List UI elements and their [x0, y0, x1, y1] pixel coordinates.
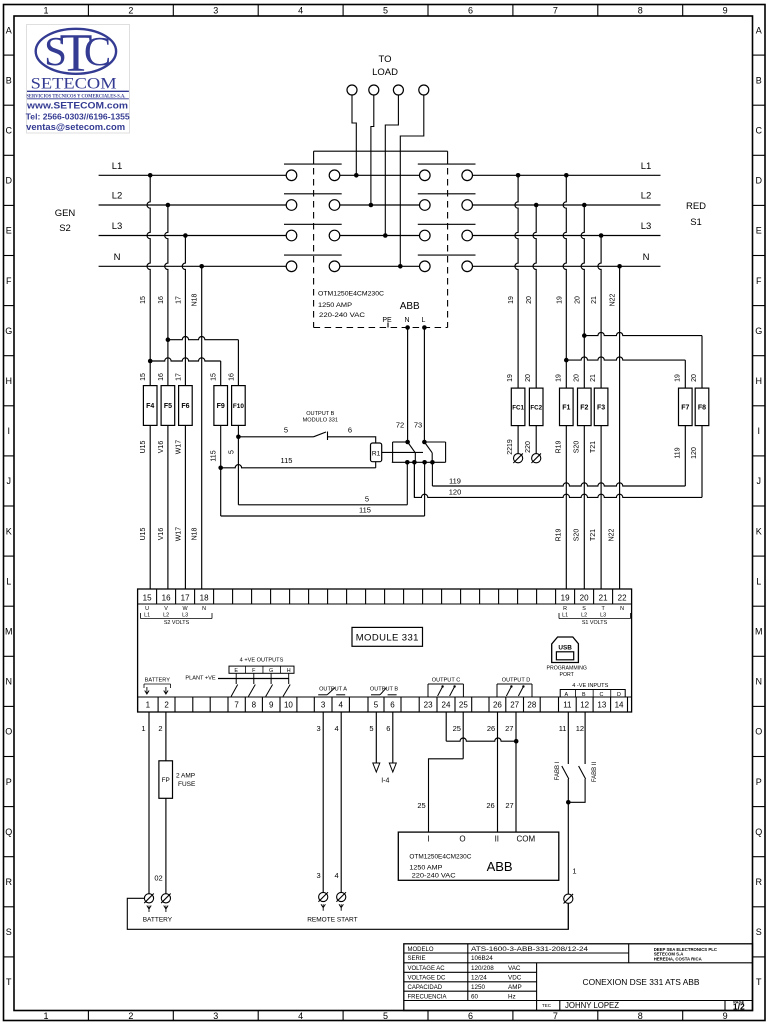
- svg-text:4: 4: [335, 871, 339, 880]
- svg-text:19: 19: [556, 296, 563, 304]
- svg-text:5: 5: [228, 450, 235, 454]
- svg-text:27: 27: [505, 724, 513, 733]
- svg-text:D: D: [5, 176, 12, 186]
- switch pole L3: [286, 230, 297, 241]
- svg-text:L3: L3: [112, 221, 123, 232]
- svg-text:N22: N22: [609, 528, 616, 541]
- fuse FC1: [511, 388, 525, 426]
- svg-text:Tel: 2566-0303//6196-1355: Tel: 2566-0303//6196-1355: [26, 111, 130, 121]
- svg-text:1: 1: [43, 1011, 48, 1021]
- svg-text:S1: S1: [690, 217, 702, 228]
- svg-text:5: 5: [374, 701, 379, 710]
- svg-text:F2: F2: [580, 404, 588, 411]
- svg-text:FC2: FC2: [530, 404, 542, 411]
- node tap 20 right: [534, 203, 539, 208]
- svg-text:ABB: ABB: [400, 301, 420, 312]
- svg-text:AMP: AMP: [508, 984, 522, 991]
- svg-text:BATTERY: BATTERY: [143, 917, 173, 924]
- svg-text:N18: N18: [192, 293, 199, 306]
- svg-text:E: E: [756, 226, 762, 236]
- svg-text:L2: L2: [641, 191, 652, 202]
- svg-text:15: 15: [143, 594, 152, 603]
- svg-text:U15: U15: [140, 440, 147, 453]
- fuse F7: [679, 388, 693, 426]
- +ve output switches: [235, 673, 237, 678]
- svg-text:W: W: [183, 606, 189, 612]
- svg-text:F: F: [6, 276, 12, 286]
- svg-text:20: 20: [574, 296, 581, 304]
- node tap N18: [199, 264, 204, 269]
- svg-text:O: O: [755, 727, 762, 737]
- svg-text:VOLTAGE AC: VOLTAGE AC: [408, 966, 446, 972]
- svg-text:FABB I: FABB I: [555, 761, 561, 780]
- svg-text:1250 AMP: 1250 AMP: [318, 302, 352, 309]
- svg-text:FP: FP: [162, 777, 170, 784]
- svg-text:L1: L1: [562, 613, 568, 619]
- fuse F2: [578, 388, 592, 426]
- svg-text:ATS-1600-3-ABB-331-208/12-24: ATS-1600-3-ABB-331-208/12-24: [471, 946, 589, 953]
- svg-text:21: 21: [590, 374, 597, 382]
- svg-text:I: I: [7, 426, 10, 436]
- svg-text:220: 220: [525, 441, 532, 453]
- svg-text:19: 19: [561, 594, 570, 603]
- svg-text:N: N: [643, 252, 650, 263]
- svg-text:120/208: 120/208: [471, 965, 494, 972]
- svg-text:19: 19: [507, 374, 514, 382]
- svg-text:BATTERY: BATTERY: [145, 678, 171, 684]
- svg-text:PLANT +VE: PLANT +VE: [185, 676, 215, 682]
- svg-text:5: 5: [365, 494, 369, 503]
- svg-text:RED: RED: [686, 201, 706, 212]
- svg-text:F6: F6: [181, 403, 189, 410]
- svg-text:F3: F3: [597, 404, 605, 411]
- svg-text:17: 17: [175, 296, 182, 304]
- svg-text:4 -VE INPUTS: 4 -VE INPUTS: [572, 683, 608, 689]
- svg-text:4: 4: [298, 1011, 303, 1021]
- svg-text:F9: F9: [217, 403, 225, 410]
- svg-text:I-4: I-4: [381, 778, 389, 785]
- svg-text:02: 02: [154, 874, 162, 883]
- svg-text:25: 25: [453, 724, 461, 733]
- svg-text:73: 73: [414, 421, 422, 430]
- svg-text:JOHNY LOPEZ: JOHNY LOPEZ: [565, 1001, 619, 1010]
- svg-text:26: 26: [486, 801, 494, 810]
- svg-text:5: 5: [383, 6, 388, 16]
- svg-text:P: P: [756, 777, 762, 787]
- svg-text:14: 14: [615, 701, 624, 710]
- svg-text:S2 VOLTS: S2 VOLTS: [164, 620, 190, 626]
- svg-text:6: 6: [386, 724, 390, 733]
- svg-text:O: O: [459, 834, 465, 843]
- fuse F10: [232, 386, 246, 426]
- svg-text:18: 18: [200, 594, 209, 603]
- svg-text:W17: W17: [175, 527, 182, 542]
- svg-text:115: 115: [359, 505, 371, 514]
- svg-text:I: I: [427, 834, 429, 843]
- svg-text:16: 16: [158, 296, 165, 304]
- svg-text:O: O: [5, 727, 12, 737]
- svg-text:7: 7: [553, 6, 558, 16]
- battery terminals: [144, 894, 153, 903]
- svg-text:CONEXION DSE 331 ATS ABB: CONEXION DSE 331 ATS ABB: [583, 977, 700, 987]
- svg-text:CAPACIDAD: CAPACIDAD: [408, 985, 443, 991]
- svg-text:T21: T21: [590, 529, 597, 541]
- svg-text:FUSE: FUSE: [178, 781, 196, 788]
- node tap 15: [148, 173, 153, 178]
- svg-text:V: V: [164, 606, 168, 612]
- relay R1: [371, 443, 382, 462]
- svg-text:25: 25: [459, 701, 468, 710]
- svg-text:ventas@setecom.com: ventas@setecom.com: [26, 122, 125, 133]
- wire L2 red side: [473, 204, 661, 206]
- svg-text:27: 27: [510, 701, 519, 710]
- switch pole L1: [286, 170, 297, 181]
- svg-text:23: 23: [424, 701, 433, 710]
- svg-text:4: 4: [298, 6, 303, 16]
- svg-text:8: 8: [638, 6, 643, 16]
- USB programming port: [552, 637, 579, 663]
- svg-text:22: 22: [618, 594, 627, 603]
- svg-text:FC1: FC1: [512, 404, 524, 411]
- svg-text:N18: N18: [192, 527, 199, 540]
- svg-text:17: 17: [175, 373, 182, 381]
- svg-text:Hz: Hz: [508, 993, 516, 1000]
- R1 output wire: [382, 451, 423, 453]
- svg-text:TEC: TEC: [542, 1003, 552, 1008]
- svg-text:L3: L3: [600, 613, 606, 619]
- fuse F6: [179, 386, 193, 426]
- svg-text:4 +VE OUTPUTS: 4 +VE OUTPUTS: [240, 658, 284, 664]
- svg-text:OTM1250E4CM230C: OTM1250E4CM230C: [409, 855, 472, 861]
- svg-text:L: L: [756, 576, 761, 586]
- svg-text:PROGRAMMING: PROGRAMMING: [547, 666, 587, 672]
- svg-text:15: 15: [140, 296, 147, 304]
- svg-text:J: J: [756, 476, 761, 486]
- svg-text:27: 27: [505, 801, 513, 810]
- svg-text:119: 119: [674, 447, 681, 458]
- wire L3 gen side: [99, 235, 287, 237]
- svg-text:TO: TO: [378, 54, 391, 65]
- svg-text:11: 11: [559, 724, 567, 733]
- svg-text:R: R: [755, 877, 762, 887]
- svg-text:PE: PE: [382, 317, 392, 324]
- svg-text:MODULE 331: MODULE 331: [356, 633, 419, 644]
- svg-text:2: 2: [164, 701, 169, 710]
- svg-text:REMOTE START: REMOTE START: [307, 917, 357, 924]
- svg-text:S1 VOLTS: S1 VOLTS: [582, 620, 608, 626]
- ATS switch OTM1250E4CM230C: [314, 150, 448, 152]
- svg-text:A: A: [756, 25, 762, 35]
- svg-text:6: 6: [390, 701, 395, 710]
- svg-text:MODELO: MODELO: [408, 947, 434, 953]
- svg-text:F10: F10: [233, 403, 244, 410]
- svg-text:W17: W17: [175, 440, 182, 455]
- svg-text:B: B: [6, 75, 12, 85]
- svg-text:L: L: [6, 576, 11, 586]
- svg-text:M: M: [755, 626, 763, 636]
- svg-text:10: 10: [284, 701, 293, 710]
- module top terminals: [156, 589, 158, 604]
- 119 bus: [684, 426, 686, 486]
- svg-text:L2: L2: [112, 191, 123, 202]
- wire N red side: [473, 265, 661, 267]
- svg-text:V16: V16: [158, 441, 165, 454]
- svg-text:9: 9: [723, 1011, 728, 1021]
- fuse F8: [695, 388, 709, 426]
- FC output terminals: [514, 454, 523, 463]
- svg-text:LOAD: LOAD: [372, 67, 398, 78]
- svg-text:19: 19: [674, 374, 681, 382]
- wire L1 red side: [473, 174, 661, 176]
- svg-text:G: G: [755, 326, 762, 336]
- node tap 19 right: [564, 173, 569, 178]
- svg-text:T: T: [6, 977, 12, 987]
- svg-text:FRECUENCIA: FRECUENCIA: [408, 994, 447, 1000]
- svg-text:P: P: [6, 777, 12, 787]
- svg-text:220-240 VAC: 220-240 VAC: [319, 312, 366, 319]
- svg-text:9: 9: [269, 701, 274, 710]
- svg-text:H: H: [287, 668, 291, 674]
- MODULE 331 label: [352, 627, 423, 646]
- svg-text:12: 12: [576, 724, 584, 733]
- svg-text:2: 2: [158, 724, 162, 733]
- svg-text:L3: L3: [182, 613, 188, 619]
- svg-text:25: 25: [417, 801, 425, 810]
- svg-text:3: 3: [317, 724, 321, 733]
- svg-text:PORT: PORT: [560, 672, 575, 678]
- fuse F1: [560, 388, 574, 426]
- svg-text:17: 17: [181, 594, 190, 603]
- svg-text:T: T: [60, 23, 93, 83]
- svg-text:60: 60: [471, 993, 479, 1000]
- svg-text:R19: R19: [555, 440, 562, 453]
- svg-text:7: 7: [553, 1011, 558, 1021]
- switch pole N: [286, 261, 297, 272]
- node tap N22 right: [617, 264, 622, 269]
- svg-text:VAC: VAC: [508, 965, 521, 972]
- svg-text:11: 11: [563, 701, 572, 710]
- fuse F9: [214, 386, 228, 426]
- battery + feed bus: [127, 898, 568, 929]
- svg-text:S: S: [756, 927, 762, 937]
- wire L2 gen side: [99, 204, 287, 206]
- svg-text:S20: S20: [573, 529, 580, 542]
- svg-text:VDC: VDC: [508, 975, 522, 982]
- svg-text:106B24: 106B24: [471, 955, 493, 962]
- svg-text:20: 20: [526, 296, 533, 304]
- svg-text:S: S: [582, 606, 586, 612]
- svg-text:15: 15: [140, 373, 147, 381]
- wire N gen side: [99, 265, 287, 267]
- svg-text:F8: F8: [698, 404, 706, 411]
- svg-text:3: 3: [213, 1011, 218, 1021]
- svg-text:SERIE: SERIE: [408, 956, 426, 962]
- svg-text:G: G: [5, 326, 12, 336]
- svg-text:GEN: GEN: [55, 208, 76, 219]
- svg-text:5: 5: [284, 426, 288, 435]
- svg-text:6: 6: [468, 6, 473, 16]
- svg-text:F7: F7: [681, 404, 689, 411]
- svg-text:E: E: [234, 668, 238, 674]
- svg-text:L1: L1: [112, 161, 123, 172]
- svg-text:1250: 1250: [471, 984, 486, 991]
- svg-text:2: 2: [128, 1011, 133, 1021]
- svg-text:2 AMP: 2 AMP: [176, 773, 195, 780]
- node tap 19 right: [516, 173, 521, 178]
- svg-text:K: K: [6, 526, 12, 536]
- svg-text:1/2: 1/2: [733, 1002, 745, 1012]
- svg-text:T21: T21: [590, 441, 597, 453]
- svg-text:16: 16: [158, 373, 165, 381]
- svg-text:72: 72: [396, 421, 404, 430]
- svg-text:220-240 VAC: 220-240 VAC: [412, 874, 457, 880]
- svg-text:A: A: [6, 25, 12, 35]
- svg-text:OTM1250E4CM230C: OTM1250E4CM230C: [318, 291, 385, 298]
- svg-text:4: 4: [335, 724, 339, 733]
- svg-text:U15: U15: [140, 527, 147, 540]
- svg-text:2: 2: [128, 6, 133, 16]
- module bottom terminals: [137, 697, 139, 712]
- svg-text:8: 8: [638, 1011, 643, 1021]
- svg-text:N: N: [5, 677, 12, 687]
- svg-text:www.SETECOM.com: www.SETECOM.com: [26, 100, 128, 111]
- svg-text:FABB II: FABB II: [592, 761, 598, 782]
- svg-text:1: 1: [43, 6, 48, 16]
- svg-text:VOLTAGE DC: VOLTAGE DC: [408, 976, 446, 982]
- svg-text:5: 5: [383, 1011, 388, 1021]
- svg-text:USB: USB: [558, 645, 572, 652]
- svg-text:21: 21: [591, 296, 598, 304]
- svg-text:16: 16: [228, 373, 235, 381]
- svg-text:OUTPUT B: OUTPUT B: [306, 411, 334, 417]
- svg-text:20: 20: [525, 374, 532, 382]
- svg-text:R: R: [5, 877, 12, 887]
- svg-text:A: A: [564, 692, 568, 698]
- svg-text:N: N: [404, 317, 409, 324]
- svg-text:N22: N22: [610, 293, 617, 306]
- svg-text:II: II: [495, 834, 499, 843]
- fuse F4: [143, 386, 157, 426]
- svg-text:S: S: [6, 927, 12, 937]
- svg-text:1: 1: [141, 724, 145, 733]
- load wires: [352, 95, 356, 175]
- N L terminal dots: [405, 325, 410, 330]
- svg-text:3: 3: [213, 6, 218, 16]
- svg-text:V16: V16: [158, 528, 165, 541]
- svg-text:L: L: [422, 317, 426, 324]
- contact brackets: [393, 441, 408, 443]
- 5 bus: [237, 437, 239, 505]
- svg-text:D: D: [755, 176, 762, 186]
- node tap 21 right: [599, 233, 604, 238]
- svg-text:5: 5: [369, 724, 373, 733]
- svg-text:MODULO 331: MODULO 331: [303, 418, 338, 424]
- node tap 20 right: [582, 203, 587, 208]
- svg-text:B: B: [756, 75, 762, 85]
- 115 bus: [220, 468, 222, 516]
- svg-text:N: N: [114, 252, 121, 263]
- svg-text:R: R: [563, 606, 567, 612]
- svg-text:20: 20: [691, 374, 698, 382]
- svg-text:HEREDIA, COSTA RICA: HEREDIA, COSTA RICA: [654, 956, 702, 961]
- svg-text:L1: L1: [144, 613, 150, 619]
- svg-text:24: 24: [442, 701, 451, 710]
- svg-text:12/24: 12/24: [471, 975, 487, 982]
- svg-text:8: 8: [252, 701, 257, 710]
- svg-text:1: 1: [572, 867, 576, 876]
- svg-text:S2: S2: [59, 223, 71, 234]
- wire L3 red side: [473, 235, 661, 237]
- svg-text:SETECOM: SETECOM: [31, 76, 117, 93]
- svg-text:1: 1: [146, 701, 151, 710]
- node tap 17: [183, 233, 188, 238]
- svg-text:K: K: [756, 526, 762, 536]
- switch pole L2: [286, 200, 297, 211]
- fuse FC2: [529, 388, 543, 426]
- svg-text:20: 20: [580, 594, 589, 603]
- svg-text:L2: L2: [163, 613, 169, 619]
- svg-text:3: 3: [317, 871, 321, 880]
- svg-text:6: 6: [468, 1011, 473, 1021]
- fuse FP: [159, 761, 173, 799]
- svg-text:120: 120: [449, 488, 462, 497]
- svg-text:F5: F5: [164, 403, 172, 410]
- fuse F5: [161, 386, 175, 426]
- svg-text:6: 6: [348, 426, 352, 435]
- svg-text:L3: L3: [641, 221, 652, 232]
- svg-text:26: 26: [493, 701, 502, 710]
- module 331 outline: [138, 589, 632, 712]
- svg-text:R19: R19: [555, 528, 562, 541]
- svg-text:28: 28: [527, 701, 536, 710]
- svg-text:20: 20: [573, 374, 580, 382]
- svg-text:120: 120: [691, 447, 698, 459]
- svg-text:119: 119: [449, 476, 461, 485]
- 120 bus path: [414, 462, 702, 497]
- svg-text:Q: Q: [5, 827, 12, 837]
- svg-text:B: B: [582, 692, 586, 698]
- svg-text:J: J: [6, 476, 11, 486]
- svg-text:12: 12: [580, 701, 589, 710]
- svg-text:2219: 2219: [507, 439, 514, 455]
- svg-text:OUTPUT D: OUTPUT D: [502, 678, 531, 684]
- svg-text:COM: COM: [517, 834, 536, 843]
- svg-text:3: 3: [321, 701, 326, 710]
- fuse F3: [594, 388, 608, 426]
- svg-text:D: D: [617, 692, 621, 698]
- svg-text:15: 15: [211, 373, 218, 381]
- branch wires to F7 F8: [582, 333, 587, 338]
- svg-text:M: M: [5, 626, 13, 636]
- svg-text:L2: L2: [581, 613, 587, 619]
- svg-text:L1: L1: [641, 161, 652, 172]
- wire L1 gen side: [99, 174, 287, 176]
- svg-text:C: C: [5, 125, 12, 135]
- svg-text:OUTPUT C: OUTPUT C: [432, 678, 461, 684]
- title block: [404, 944, 753, 1011]
- svg-text:4: 4: [338, 701, 343, 710]
- svg-text:I: I: [757, 426, 760, 436]
- svg-text:ABB: ABB: [487, 859, 513, 874]
- svg-text:Q: Q: [755, 827, 762, 837]
- svg-text:N: N: [755, 677, 762, 687]
- svg-text:9: 9: [723, 6, 728, 16]
- svg-text:F1: F1: [562, 404, 570, 411]
- svg-text:F4: F4: [146, 403, 154, 410]
- svg-text:G: G: [269, 668, 273, 674]
- svg-text:16: 16: [162, 594, 171, 603]
- R1 lower wire 115: [218, 466, 223, 471]
